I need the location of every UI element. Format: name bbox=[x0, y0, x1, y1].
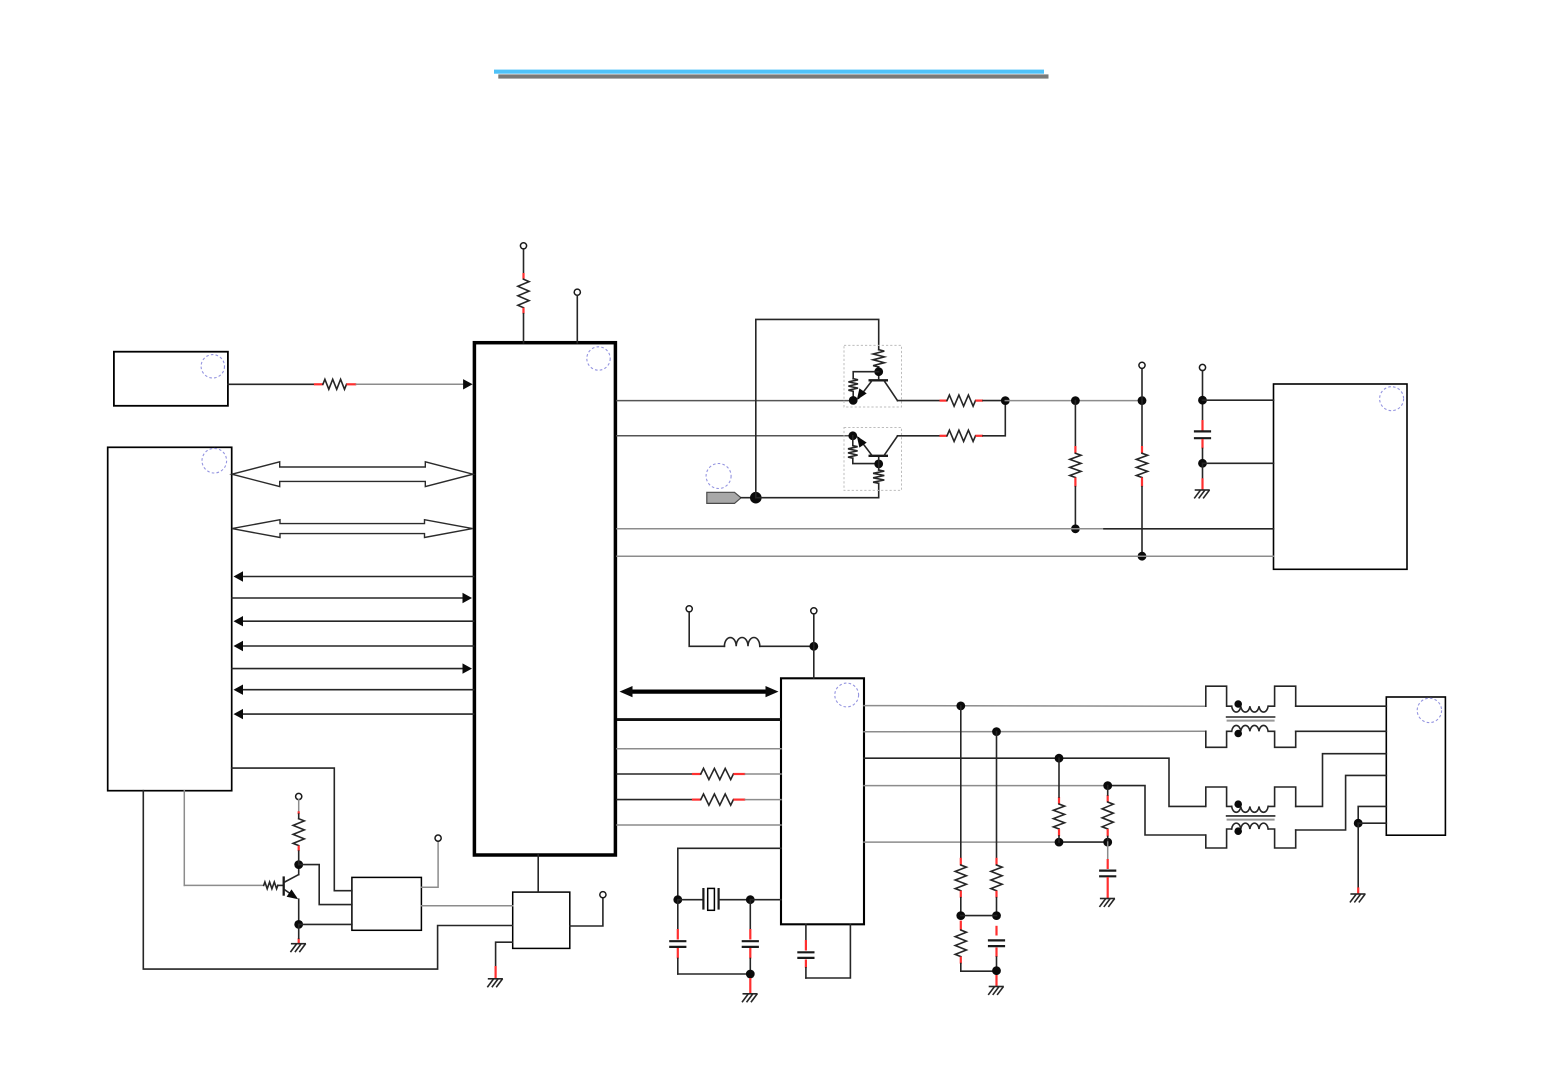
wire bbox=[983, 401, 1005, 436]
wire bbox=[1358, 822, 1386, 824]
wire bbox=[878, 464, 880, 470]
wire net B bbox=[617, 435, 853, 437]
resistor R16 bbox=[1058, 797, 1060, 804]
arrow into U2 bbox=[463, 379, 473, 389]
terminal bbox=[686, 606, 692, 612]
junction bbox=[1001, 396, 1010, 405]
wire bbox=[1141, 368, 1143, 400]
junction bbox=[1198, 396, 1207, 405]
block: top-left box (connector) bbox=[114, 352, 228, 406]
resistor R15 bbox=[960, 921, 962, 930]
junction bbox=[992, 966, 1001, 975]
terminal bbox=[1199, 364, 1205, 370]
wire bbox=[760, 645, 814, 647]
transistor Q2 collector bbox=[885, 381, 898, 400]
wire bbox=[719, 899, 751, 901]
crystal Y1 bbox=[702, 888, 704, 910]
wire bbox=[1203, 399, 1274, 401]
wire bbox=[421, 841, 438, 887]
junction bbox=[294, 860, 303, 869]
capacitor C4 bbox=[805, 924, 807, 940]
block: right connector J1 bbox=[1274, 384, 1408, 569]
wire bbox=[898, 435, 940, 437]
bus arrow (double-headed) 2 bbox=[232, 520, 473, 538]
wire bbox=[1358, 806, 1386, 823]
wire bbox=[1357, 823, 1359, 887]
junction bbox=[1138, 396, 1147, 405]
wire net RX- bbox=[864, 785, 1108, 787]
wire bbox=[853, 372, 879, 379]
wire bbox=[523, 249, 525, 273]
junction bbox=[956, 911, 965, 920]
annotation circle bbox=[706, 464, 731, 489]
wire bbox=[813, 646, 815, 678]
ground bbox=[1100, 899, 1114, 907]
wire net E bbox=[617, 555, 1274, 557]
resistor R2 (series, horizontal) bbox=[314, 383, 323, 385]
T1 right upper tab bbox=[1268, 686, 1295, 706]
wire bbox=[356, 383, 463, 385]
junction bbox=[1055, 754, 1064, 763]
wire bbox=[278, 884, 283, 886]
resistor R12 row bbox=[617, 799, 692, 801]
wire bbox=[678, 848, 781, 899]
wire bbox=[183, 791, 185, 886]
wire bbox=[1296, 775, 1387, 830]
T2 left lower tab bbox=[1206, 829, 1232, 848]
junction bbox=[750, 492, 762, 504]
wire net D bbox=[617, 528, 1104, 530]
T1 core bbox=[1227, 716, 1275, 718]
transistor Q1 base bar bbox=[283, 876, 285, 895]
junction bbox=[956, 702, 965, 711]
wire bbox=[878, 458, 880, 464]
wire bbox=[995, 975, 997, 986]
resistor R17 bbox=[1107, 795, 1109, 802]
resistor R10 (to net E) bbox=[1141, 401, 1143, 446]
wire bbox=[678, 899, 704, 901]
ground bbox=[1350, 894, 1364, 902]
ground bbox=[989, 987, 1003, 995]
T1 polarity dot primary bbox=[1234, 700, 1242, 708]
T2 right lower tab bbox=[1268, 829, 1295, 848]
wire bbox=[576, 295, 578, 342]
wire (U2 to M2) bbox=[537, 855, 539, 892]
junction bbox=[294, 920, 303, 929]
signal arrow left y=646 bbox=[236, 645, 474, 647]
junction bbox=[1138, 552, 1147, 561]
wire bbox=[1202, 371, 1204, 420]
wire bbox=[750, 899, 781, 901]
transistor Q2 emitter bbox=[859, 381, 872, 398]
T1 right lower tab bbox=[1268, 731, 1295, 747]
wire bbox=[232, 768, 352, 891]
wire bbox=[496, 942, 513, 966]
block: central ASIC U2 bbox=[474, 343, 615, 855]
ground bbox=[488, 979, 502, 987]
junction bbox=[1198, 459, 1207, 468]
block: small module M1 bbox=[352, 877, 422, 930]
ground bbox=[291, 944, 305, 952]
capacitor C6 bbox=[1107, 842, 1109, 859]
resistor R5 (Q3 base-emitter) bbox=[848, 446, 858, 459]
wire net TX+ bbox=[864, 705, 1206, 708]
transistor Q1 collector bbox=[285, 875, 299, 882]
ground bbox=[743, 994, 757, 1002]
wire bbox=[1296, 754, 1387, 807]
title underline shadow bbox=[498, 74, 1048, 78]
capacitor C3 bbox=[749, 900, 751, 929]
capacitor C1 bbox=[1201, 420, 1203, 431]
terminal VCC1 bbox=[520, 243, 526, 249]
T2 right upper tab bbox=[1268, 787, 1295, 806]
terminal bbox=[1139, 362, 1145, 368]
wire bbox=[1296, 705, 1387, 707]
wire net A bbox=[617, 400, 853, 402]
wire net CT bbox=[864, 841, 1059, 843]
junction bbox=[1354, 819, 1363, 828]
resistor R6 (Q3 base series) bbox=[873, 470, 884, 483]
transistor Q2 base bar bbox=[869, 379, 889, 381]
junction bbox=[1103, 781, 1112, 790]
transistor Q3 collector bbox=[885, 436, 898, 455]
capacitor C2 bbox=[677, 900, 679, 929]
junction bbox=[874, 367, 883, 376]
resistor R11 row bbox=[617, 773, 692, 775]
wire bbox=[878, 367, 880, 379]
wire bbox=[1203, 462, 1274, 464]
T1 secondary winding bbox=[1232, 725, 1268, 731]
wire bbox=[853, 458, 879, 463]
resistor R8 bbox=[940, 435, 948, 437]
wire net RX+ bbox=[864, 758, 1205, 806]
T2 left upper tab bbox=[1206, 787, 1232, 806]
transistor Q1 emitter bbox=[285, 890, 296, 897]
wire bbox=[689, 612, 724, 646]
wire bbox=[228, 383, 314, 385]
resistor R1 (pull-up, vertical) bbox=[522, 273, 524, 279]
resistor R3 (Q2 base series) bbox=[873, 350, 884, 367]
wire loop to Q3 bottom bbox=[756, 483, 879, 497]
wire bbox=[570, 898, 603, 926]
T2 primary winding bbox=[1232, 806, 1268, 812]
T2 polarity dot secondary bbox=[1234, 827, 1242, 835]
wire bbox=[421, 905, 512, 907]
junction bbox=[1071, 396, 1080, 405]
junction bbox=[849, 396, 858, 405]
resistor R14 bbox=[996, 732, 998, 858]
wire bbox=[983, 400, 1005, 402]
block: small module M2 bbox=[513, 892, 570, 948]
net flag (gray) bbox=[707, 492, 741, 503]
bus arrow thick (U2-U3) bbox=[630, 689, 768, 693]
wire bbox=[1296, 730, 1387, 732]
resistor R4 (Q2 base-emitter) bbox=[848, 379, 858, 392]
wire bbox=[749, 978, 751, 993]
terminal bbox=[600, 892, 606, 898]
signal arrow left y=621.2 bbox=[236, 620, 474, 622]
wire bbox=[898, 400, 940, 402]
junction bbox=[673, 895, 682, 904]
block: RJ45 jack J2 bbox=[1386, 697, 1445, 835]
terminal bbox=[296, 793, 302, 799]
wire net TX- bbox=[864, 730, 1206, 733]
terminal bbox=[435, 835, 441, 841]
signal arrow left y=689.7 bbox=[236, 689, 474, 691]
wire (thick) bbox=[617, 718, 781, 721]
wire bbox=[523, 314, 525, 343]
signal arrow left y=714.1 bbox=[236, 713, 474, 715]
wire bbox=[806, 924, 851, 978]
resistor R7 bbox=[940, 400, 948, 402]
wire bbox=[299, 923, 352, 925]
T2 polarity dot primary bbox=[1234, 800, 1242, 808]
wire bbox=[961, 915, 997, 917]
signal arrow right y=598 bbox=[232, 597, 470, 599]
junction bbox=[992, 727, 1001, 736]
wire bbox=[299, 865, 352, 905]
wire bbox=[678, 973, 751, 975]
junction bbox=[1071, 524, 1080, 533]
signal arrow right y=668.6 bbox=[232, 668, 470, 670]
T1 primary winding bbox=[1232, 706, 1268, 712]
wire bbox=[617, 824, 781, 826]
T2 secondary winding bbox=[1232, 823, 1268, 829]
junction bbox=[992, 911, 1001, 920]
terminal bbox=[811, 608, 817, 614]
wire loop to Q2 top bbox=[756, 319, 879, 497]
bus arrow (double-headed) 1 bbox=[232, 462, 473, 487]
wire net C bbox=[1005, 400, 1142, 402]
resistor R13 bbox=[960, 706, 962, 858]
wire bbox=[1202, 463, 1204, 478]
ground bbox=[1195, 490, 1209, 498]
wire bbox=[813, 614, 815, 646]
T1 left lower tab bbox=[1206, 731, 1232, 747]
T2 core bbox=[1227, 815, 1275, 817]
wire bbox=[298, 938, 300, 943]
inductor L1 bbox=[724, 637, 759, 646]
resistor R18 (base) bbox=[264, 882, 278, 889]
resistor R19 (collector pull) bbox=[298, 800, 300, 812]
junction bbox=[809, 642, 818, 651]
junction bbox=[1055, 838, 1064, 847]
wire bbox=[741, 497, 756, 499]
signal arrow left y=576.5 bbox=[236, 576, 474, 578]
digital transistor Q2 (dashed box) bbox=[844, 345, 902, 407]
junction bbox=[746, 895, 755, 904]
wire bbox=[617, 748, 781, 750]
wire bbox=[1202, 449, 1204, 464]
wire bbox=[852, 436, 854, 446]
junction bbox=[1103, 838, 1112, 847]
junction bbox=[848, 431, 857, 440]
transistor Q3 emitter bbox=[859, 438, 872, 455]
capacitor C5 bbox=[995, 926, 997, 936]
terminal VCC2 bbox=[574, 289, 580, 295]
transistor Q3 base bar bbox=[869, 455, 889, 457]
T1 polarity dot secondary bbox=[1234, 730, 1242, 738]
T1 left upper tab bbox=[1206, 686, 1232, 706]
block: ethernet PHY U3 bbox=[781, 678, 864, 924]
junction bbox=[746, 970, 755, 979]
wire bbox=[852, 391, 854, 400]
digital transistor Q3 (dashed box) bbox=[844, 428, 902, 491]
title underline bar bbox=[494, 70, 1044, 74]
wire bbox=[143, 791, 512, 969]
resistor R9 (to net D) bbox=[1074, 401, 1076, 446]
junction bbox=[874, 460, 883, 469]
block: left tall IC U1 bbox=[108, 447, 232, 790]
